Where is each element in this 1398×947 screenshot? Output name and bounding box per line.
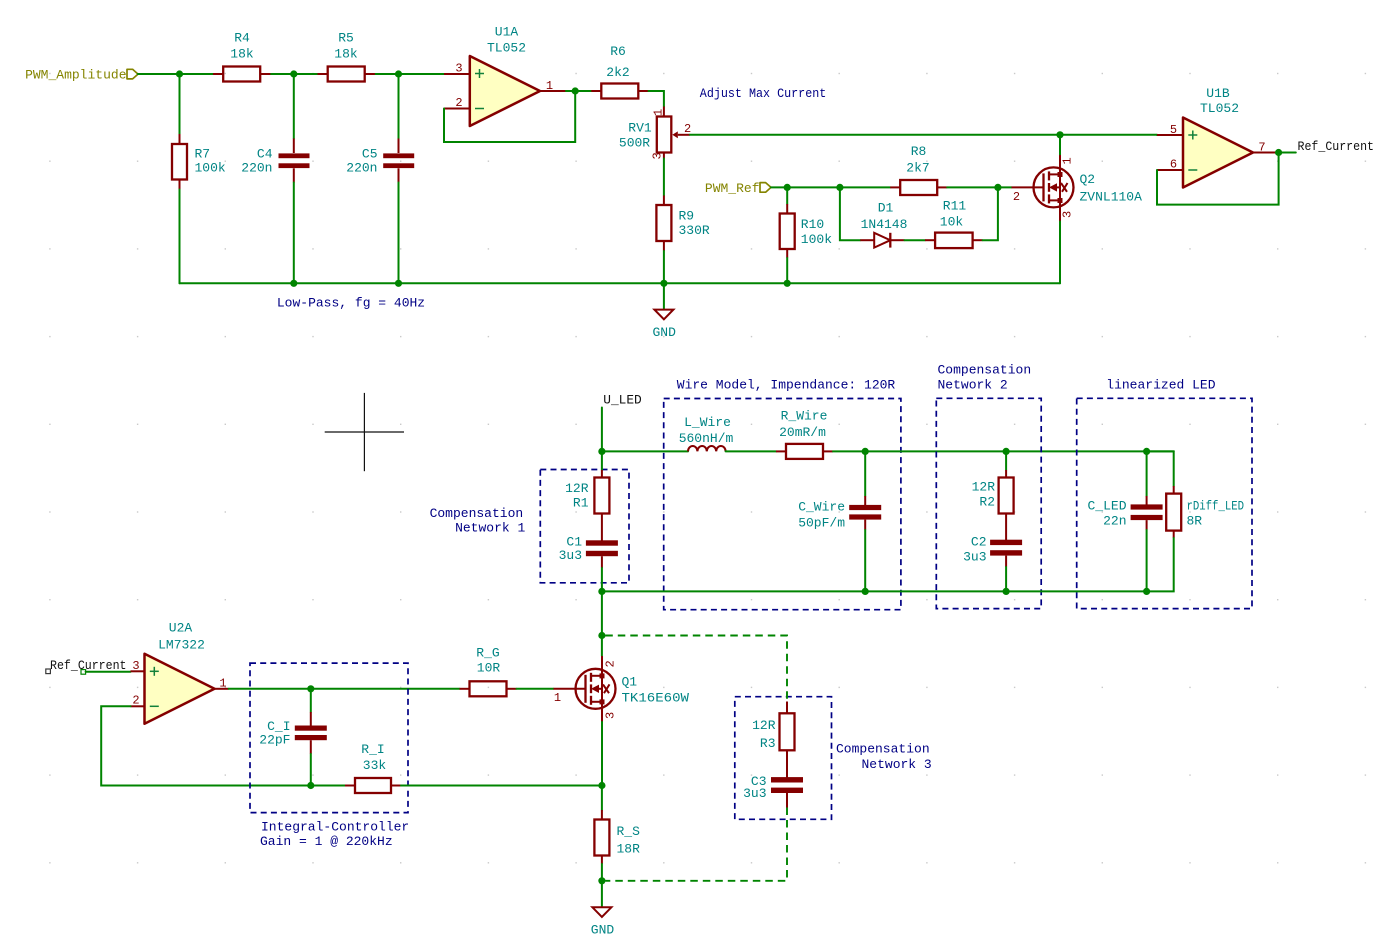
box linearized LED [1077,398,1252,608]
capacitor C_Wire [798,451,881,591]
svg-text:R2: R2 [979,495,995,510]
node junction return C_Wire [862,588,869,595]
capacitor C5 [346,74,414,283]
resistor R10 [780,187,833,283]
svg-text:R1: R1 [573,496,589,511]
note Compensation Network 3 [836,742,932,773]
svg-text:Network 3: Network 3 [862,757,932,772]
transistor Q1 TK16E60W [554,656,690,722]
svg-text:Network 1: Network 1 [455,521,525,536]
svg-text:R7: R7 [195,147,211,162]
svg-text:7: 7 [1258,141,1265,155]
svg-text:12R: 12R [972,480,996,495]
svg-text:Integral-Controller: Integral-Controller [261,819,409,834]
wire R_I to source node [401,785,602,787]
svg-text:12R: 12R [565,481,589,496]
svg-text:U2A: U2A [169,621,193,636]
svg-text:R11: R11 [943,199,967,214]
wire D1 branch down [840,187,860,240]
svg-text:R10: R10 [801,217,824,232]
wire Q2 source to rail [1059,222,1061,284]
svg-text:Compensation: Compensation [938,363,1032,378]
svg-text:D1: D1 [878,201,894,216]
svg-text:linearized LED: linearized LED [1106,378,1215,393]
svg-text:R_I: R_I [361,742,384,757]
inductor L_Wire [679,415,734,451]
wire to rDiff_LED [1147,451,1174,486]
resistor R6 [591,44,648,99]
node junction C_I bottom [307,782,314,789]
svg-text:Adjust Max Current: Adjust Max Current [700,86,827,101]
resistor R4 [213,31,270,82]
svg-text:Ref_Current: Ref_Current [1298,140,1375,154]
node junction rail C4 [290,280,297,287]
svg-text:3u3: 3u3 [559,548,582,563]
resistor R_Wire [776,409,833,459]
op-amp U1A [444,25,566,127]
svg-text:U1B: U1B [1206,86,1230,101]
transistor Q2 ZVNL110A [1012,155,1143,222]
svg-text:22pF: 22pF [259,733,290,748]
svg-text:6: 6 [1170,158,1177,172]
svg-text:Q1: Q1 [622,675,638,690]
svg-text:500R: 500R [619,136,650,151]
wire R6 to RV1 [649,91,664,107]
diode D1 1N4148 [860,201,907,248]
node junction R7 [176,70,183,77]
wire R11 up to gate node [983,187,998,240]
svg-text:2: 2 [132,694,139,708]
label Ref_Current input [46,659,127,674]
svg-text:220n: 220n [241,161,272,176]
label PWM_Amplitude [25,68,138,83]
capacitor C3 [743,750,803,807]
svg-text:2k7: 2k7 [906,161,929,176]
svg-text:PWM_Ref: PWM_Ref [705,181,760,196]
svg-text:U1A: U1A [495,25,519,40]
svg-text:R4: R4 [234,31,250,46]
wire U1B feedback loop [1157,153,1279,205]
node junction C4 [290,70,297,77]
label PWM_Ref [705,181,771,196]
ground GND top [652,283,676,340]
svg-text:Compensation: Compensation [430,506,524,521]
svg-text:C_LED: C_LED [1087,499,1126,514]
wire U2A feedback loop [101,706,345,785]
svg-text:2: 2 [604,660,618,667]
box Integral-Controller [250,663,408,813]
node junction C5 [395,70,402,77]
svg-text:12R: 12R [752,718,776,733]
wire main vertical to Q1 [601,591,603,656]
svg-text:1: 1 [219,677,226,691]
svg-text:330R: 330R [679,223,710,238]
svg-text:L_Wire: L_Wire [684,415,731,430]
note Compensation Network 2 [938,363,1032,393]
svg-text:Q2: Q2 [1080,172,1096,187]
svg-text:R8: R8 [911,144,927,159]
wire return line [602,590,1147,592]
svg-text:3u3: 3u3 [743,786,766,801]
svg-text:18k: 18k [334,47,358,62]
wire U1A output [566,90,591,92]
resistor R1 [565,451,609,513]
svg-text:C_Wire: C_Wire [798,500,845,515]
svg-text:1: 1 [546,79,553,93]
svg-text:ZVNL110A: ZVNL110A [1080,190,1143,205]
op-amp U1B [1157,86,1279,188]
svg-text:1: 1 [1061,157,1075,164]
svg-text:U_LED: U_LED [603,394,642,408]
svg-text:R_S: R_S [617,824,641,839]
node junction return C_LED [1143,588,1150,595]
resistor R_S [594,810,640,881]
svg-text:R_Wire: R_Wire [781,409,828,424]
node junction Q1 source [598,782,605,789]
node junction rail R10 [784,280,791,287]
op-amp U2A [131,621,229,724]
svg-text:3: 3 [604,712,618,719]
svg-text:10R: 10R [477,661,501,676]
svg-text:GND: GND [591,923,615,938]
svg-text:2k2: 2k2 [606,65,629,80]
wire U1B output [1279,152,1296,154]
svg-text:3: 3 [455,62,462,76]
svg-text:100k: 100k [801,232,832,247]
resistor R8 [890,144,947,195]
svg-text:R6: R6 [610,44,626,59]
resistor R3 [752,702,794,752]
resistor R7 [172,74,226,283]
resistor rDiff_LED [1166,486,1244,538]
node junction R_S bottom [598,877,605,884]
wire ground rail top [180,282,1061,284]
svg-text:20mR/m: 20mR/m [779,425,826,440]
svg-text:1: 1 [554,691,561,705]
ground GND bottom [591,881,615,938]
svg-text:220n: 220n [346,161,377,176]
node junction C_LED [1143,448,1150,455]
wire RV1 wiper to U1B pin5 [690,134,1157,136]
box Compensation Network 2 [936,398,1041,608]
svg-text:PWM_Amplitude: PWM_Amplitude [25,68,126,83]
note Integral-Controller [260,819,409,849]
wire Ref_Current to U2A pin3 [86,671,131,673]
resistor R9 [656,196,710,284]
svg-text:R_G: R_G [476,646,499,661]
svg-text:rDiff_LED: rDiff_LED [1187,499,1245,514]
svg-text:2: 2 [455,96,462,110]
svg-text:3: 3 [1061,211,1075,218]
wire RV1 to R9 [663,159,665,196]
wire dashed comp3 bottom [605,808,787,881]
svg-text:100k: 100k [195,161,226,176]
svg-text:560nH/m: 560nH/m [679,431,734,446]
potentiometer RV1 [619,107,691,160]
node junction return C2 [1003,588,1010,595]
wire PWM_Ref to R8 [771,186,890,188]
svg-text:1N4148: 1N4148 [861,217,908,232]
svg-text:Network 2: Network 2 [938,378,1008,393]
node junction Q2 gate [994,184,1001,191]
wire to R_S [601,786,603,811]
svg-text:RV1: RV1 [628,121,652,136]
node junction D1 branch [836,184,843,191]
svg-text:18R: 18R [617,842,641,857]
capacitor C_LED [1087,451,1162,591]
wire dashed comp3 top [605,636,787,702]
wire U1A feedback loop [444,91,575,142]
svg-text:LM7322: LM7322 [158,638,205,653]
node junction rail C5 [395,280,402,287]
svg-text:5: 5 [1170,123,1177,137]
svg-text:50pF/m: 50pF/m [798,516,845,531]
capacitor C1 [559,514,618,592]
svg-text:22n: 22n [1103,514,1126,529]
box Compensation Network 3 [735,697,832,820]
svg-text:Compensation: Compensation [836,742,930,757]
wire R8 to gate node [947,186,1011,188]
svg-text:Wire Model, Impendance: 120R: Wire Model, Impendance: 120R [677,378,896,393]
wire D1 to R11 [905,239,926,241]
svg-text:C5: C5 [362,147,378,162]
svg-text:C2: C2 [971,535,987,550]
svg-text:C4: C4 [257,147,273,162]
svg-text:TL052: TL052 [487,41,526,56]
resistor R2 [972,451,1014,513]
node junction comp3 tap [598,632,605,639]
capacitor C2 [963,514,1022,592]
wire rDiff_LED down [1147,538,1174,591]
capacitor C4 [241,74,309,283]
wire L_Wire to R_Wire [726,450,776,452]
svg-text:GND: GND [652,325,676,340]
svg-text:Gain = 1 @ 220kHz: Gain = 1 @ 220kHz [260,834,393,849]
node junction return left [598,588,605,595]
svg-text:10k: 10k [940,215,964,230]
node junction R10 [784,184,791,191]
svg-text:18k: 18k [230,47,254,62]
node junction C_I top [307,685,314,692]
node junction R2 [1003,448,1010,455]
svg-text:TK16E60W: TK16E60W [622,691,690,706]
svg-text:1: 1 [652,109,666,116]
node junction U_LED [598,448,605,455]
svg-text:3: 3 [132,659,139,673]
resistor R_I [345,742,401,793]
svg-text:3u3: 3u3 [963,550,986,565]
node junction C_Wire [862,448,869,455]
capacitor C_I [259,689,327,786]
wire R_G to Q1 gate [517,688,554,690]
resistor R5 [318,31,375,82]
node junction U1B output [1275,149,1282,156]
svg-text:R5: R5 [338,31,354,46]
svg-text:8R: 8R [1187,514,1203,529]
crosshair marker [325,393,404,471]
svg-text:2: 2 [1013,190,1020,204]
resistor R11 [925,199,983,249]
wire U_LED to L_Wire [602,450,688,452]
svg-text:3: 3 [651,152,665,159]
svg-text:R9: R9 [679,209,695,224]
wire R_Wire to LED branch [833,450,1174,452]
node junction Q2 drain [1056,131,1063,138]
wire Q1 source down [601,722,603,786]
wire Q2 drain [1059,135,1061,155]
wire U_LED stub [601,408,603,452]
wire PWM_Amplitude to U1A pin3 [138,73,213,75]
svg-text:Low-Pass, fg = 40Hz: Low-Pass, fg = 40Hz [277,296,425,311]
box Compensation Network 1 [540,470,629,583]
resistor R_G [460,646,517,697]
node junction U1A output [572,87,579,94]
svg-text:33k: 33k [363,758,387,773]
svg-text:TL052: TL052 [1200,101,1239,116]
note Compensation Network 1 [430,506,526,536]
box Wire Model [664,399,901,610]
svg-text:R3: R3 [760,736,776,751]
wire U2A output [229,688,460,690]
node junction rail GND [660,280,667,287]
